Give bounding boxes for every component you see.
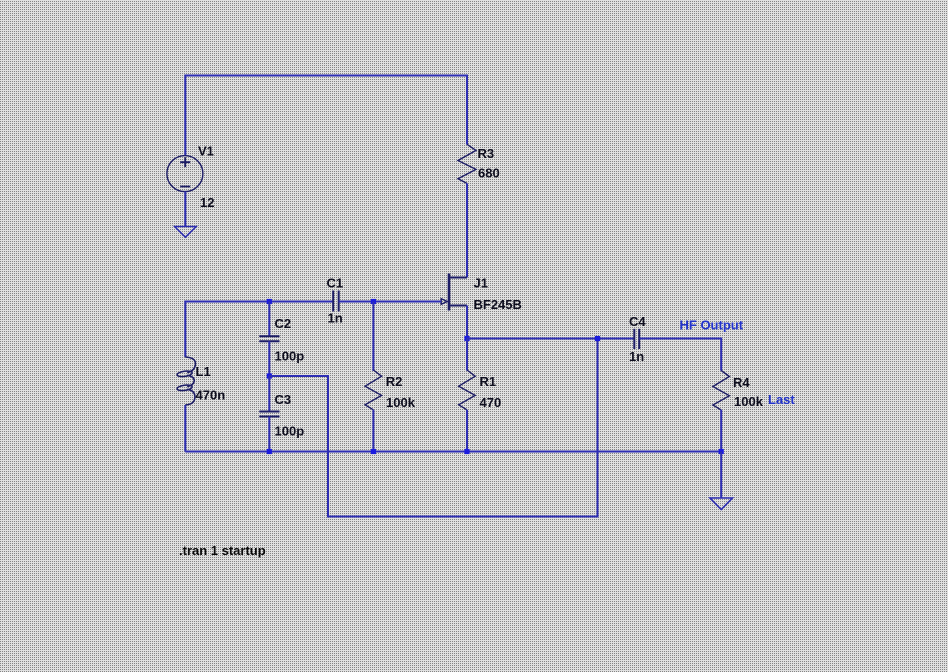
svg-text:L1: L1 [196, 364, 211, 379]
value 100k [734, 394, 764, 409]
net label HF Output [680, 318, 744, 333]
resistor R1 [459, 370, 476, 410]
wire R2 top lead [372, 302, 374, 372]
node R2 bottom junction [371, 449, 376, 454]
net label Last [768, 392, 795, 407]
capacitor C1 [333, 291, 339, 312]
label R3 [478, 146, 495, 161]
wire R2 to bottom rail [372, 410, 374, 452]
wire C3 to bottom rail [268, 417, 270, 452]
label C3 [275, 392, 292, 407]
label J1 [474, 276, 488, 291]
svg-text:R4: R4 [733, 375, 750, 390]
directive .tran 1 startup [179, 543, 266, 558]
svg-text:BF245B: BF245B [474, 297, 522, 312]
ground under R4 [710, 498, 732, 510]
node C2 C3 junction [267, 373, 272, 378]
svg-text:HF Output: HF Output [680, 318, 744, 333]
node J1 source junction [464, 336, 469, 341]
wire R4 to bottom rail [720, 410, 722, 452]
svg-text:.tran 1 startup: .tran 1 startup [179, 543, 266, 558]
svg-text:J1: J1 [474, 276, 488, 291]
resistor R4 [713, 371, 730, 411]
node C2 top junction [267, 299, 272, 304]
value BF245B [474, 297, 522, 312]
wire R4 node to ground [720, 452, 722, 498]
value 1n [328, 311, 343, 326]
svg-text:470: 470 [480, 395, 502, 410]
label V1 [198, 144, 214, 159]
label R4 [733, 375, 750, 390]
wire R1 top lead [466, 339, 468, 371]
voltage source V1 [167, 156, 203, 192]
wire C2 top lead [268, 302, 270, 337]
label C2 [275, 316, 292, 331]
wire output node to C4 [467, 338, 634, 340]
resistor R2 [365, 370, 382, 410]
node feedback junction [595, 336, 600, 341]
value 12 [200, 195, 214, 210]
wire R1 to bottom rail [466, 410, 468, 452]
inductor L1 [177, 357, 196, 405]
wire tank top to C1 [185, 302, 333, 358]
svg-text:C3: C3 [275, 392, 292, 407]
svg-text:R2: R2 [386, 374, 403, 389]
svg-text:12: 12 [200, 195, 214, 210]
wire feedback tap [269, 339, 597, 517]
wire J1 source to output node [466, 306, 468, 339]
svg-text:680: 680 [478, 166, 500, 181]
svg-text:V1: V1 [198, 144, 214, 159]
label C1 [327, 276, 344, 291]
svg-text:C2: C2 [275, 316, 292, 331]
label C4 [629, 314, 646, 329]
resistor R3 [458, 144, 476, 183]
svg-text:100k: 100k [734, 394, 764, 409]
capacitor C4 [634, 329, 639, 349]
node R2 top junction [371, 299, 376, 304]
value 100p [275, 349, 305, 364]
svg-text:R3: R3 [478, 146, 495, 161]
svg-text:R1: R1 [480, 374, 497, 389]
svg-text:100p: 100p [275, 349, 305, 364]
value 1n [629, 349, 644, 364]
svg-text:C1: C1 [327, 276, 344, 291]
JFET J1 [441, 274, 467, 311]
wire C1 to J1 gate [339, 301, 442, 303]
svg-text:1n: 1n [629, 349, 644, 364]
wire bottom rail [185, 451, 721, 453]
value 100k [386, 395, 416, 410]
svg-text:1n: 1n [328, 311, 343, 326]
node R1 bottom junction [464, 449, 469, 454]
svg-text:470n: 470n [196, 388, 226, 403]
wire C3 top lead [268, 376, 270, 411]
node C3 bottom junction [267, 449, 272, 454]
label R2 [386, 374, 403, 389]
ground under V1 [175, 227, 197, 238]
capacitor C3 [259, 412, 279, 417]
wire top rail V1 to R3 [185, 76, 467, 157]
wire C2 to C3 node [268, 341, 270, 376]
wire V1 to ground [184, 192, 186, 226]
label L1 [196, 364, 211, 379]
value 470n [196, 388, 226, 403]
capacitor C2 [259, 336, 279, 341]
svg-text:Last: Last [768, 392, 795, 407]
wire C4 to R4 [639, 339, 721, 371]
wire L1 to bottom rail [184, 405, 186, 452]
svg-text:100p: 100p [275, 424, 305, 439]
svg-text:100k: 100k [386, 395, 416, 410]
value 680 [478, 166, 500, 181]
value 470 [480, 395, 502, 410]
node R4 bottom junction [719, 449, 724, 454]
value 100p [275, 424, 305, 439]
label R1 [480, 374, 497, 389]
svg-text:C4: C4 [629, 314, 646, 329]
wire R3 to J1 drain [466, 183, 468, 277]
